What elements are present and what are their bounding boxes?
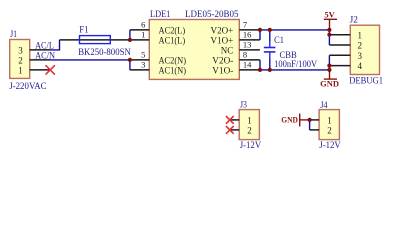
svg-text:J-12V: J-12V xyxy=(240,141,262,151)
IC pin 6 xyxy=(130,29,149,31)
junction dot C1 top xyxy=(268,28,272,32)
svg-text:AC1(N): AC1(N) xyxy=(159,66,187,76)
svg-text:AC2(L): AC2(L) xyxy=(159,26,186,36)
junction dot pin14 GND node xyxy=(258,68,262,72)
J3 pin 1 stub xyxy=(230,119,239,121)
svg-text:V2O-: V2O- xyxy=(212,56,233,66)
junction dot C1 bottom xyxy=(268,68,272,72)
svg-text:8: 8 xyxy=(243,50,247,60)
wire branch down to pin 3 row xyxy=(129,60,131,70)
IC LDE1 box xyxy=(149,10,239,79)
IC pin 3 xyxy=(130,69,149,71)
svg-text:3: 3 xyxy=(358,51,363,61)
connector J1 xyxy=(9,30,46,92)
svg-text:LDE05-20B05: LDE05-20B05 xyxy=(185,10,239,20)
junction dot GND stem xyxy=(327,68,331,72)
wire J2 pin3 to GND rail xyxy=(328,55,330,70)
no-connect X on J1 pin 1 xyxy=(46,65,55,74)
svg-text:13: 13 xyxy=(243,40,252,50)
J4 pin 2 stub xyxy=(310,129,320,131)
wire joining pins 7-16 xyxy=(259,30,261,40)
svg-text:LDE1: LDE1 xyxy=(150,10,171,20)
IC pin 13 (NC) xyxy=(239,49,260,51)
IC pin 14 xyxy=(239,69,260,71)
junction dot 5V stem xyxy=(327,28,331,32)
svg-text:4: 4 xyxy=(358,61,363,71)
svg-text:2: 2 xyxy=(18,56,23,66)
svg-text:NC: NC xyxy=(221,46,234,56)
svg-text:V1O+: V1O+ xyxy=(211,36,234,46)
junction dot J4 pin1 xyxy=(308,118,312,122)
J2 pin 3 stub xyxy=(329,54,350,56)
junction dot pin7 5V node xyxy=(258,28,262,32)
svg-text:C1: C1 xyxy=(274,36,284,46)
svg-text:J1: J1 xyxy=(10,30,17,40)
connector J4 xyxy=(319,101,341,151)
svg-text:5: 5 xyxy=(141,50,145,60)
svg-text:1: 1 xyxy=(141,30,145,40)
svg-text:1: 1 xyxy=(327,116,332,126)
svg-text:AC1(L): AC1(L) xyxy=(159,36,186,46)
fuse F1 xyxy=(60,26,131,59)
svg-text:3: 3 xyxy=(18,46,23,56)
IC pin 5 xyxy=(130,59,149,61)
wire branch up to pin 6 row xyxy=(129,30,131,40)
svg-text:5V: 5V xyxy=(324,9,335,19)
svg-text:7: 7 xyxy=(243,20,247,30)
svg-text:6: 6 xyxy=(141,20,145,30)
svg-text:J-12V: J-12V xyxy=(319,141,341,151)
svg-text:1: 1 xyxy=(18,66,23,76)
svg-text:F1: F1 xyxy=(79,26,89,36)
power port GND at J4 xyxy=(281,114,309,127)
svg-text:AC/N: AC/N xyxy=(35,50,55,60)
J2 pin 2 stub xyxy=(329,44,350,46)
J4 pin 1 stub xyxy=(310,119,320,121)
junction dot AC/N node xyxy=(128,58,132,62)
svg-text:GND: GND xyxy=(320,79,339,89)
J2 pin 1 stub xyxy=(329,34,350,36)
wire joining pins 8-14 xyxy=(259,60,261,70)
svg-text:14: 14 xyxy=(243,60,252,70)
svg-text:1: 1 xyxy=(358,30,363,40)
svg-text:AC/L: AC/L xyxy=(35,40,54,50)
J3 pin 2 stub xyxy=(230,129,239,131)
connector J2 xyxy=(349,15,383,85)
IC pin 7 xyxy=(239,29,260,31)
svg-text:100nF/100V: 100nF/100V xyxy=(274,60,317,70)
power port GND xyxy=(320,70,339,89)
connector J3 xyxy=(239,101,261,152)
svg-text:2: 2 xyxy=(247,126,252,136)
svg-text:V1O-: V1O- xyxy=(212,66,233,76)
junction dot fuse/AC-L node xyxy=(128,38,132,42)
wire J4 pins 1-2 xyxy=(309,120,311,130)
svg-text:J2: J2 xyxy=(350,15,359,25)
GND rail wire xyxy=(260,69,329,71)
J1 pin 1 stub xyxy=(30,69,50,71)
svg-text:J-220VAC: J-220VAC xyxy=(9,82,46,92)
no-connect X J3 pin1 xyxy=(226,116,234,124)
svg-text:3: 3 xyxy=(141,60,145,70)
svg-text:DEBUG1: DEBUG1 xyxy=(349,76,383,86)
J1 pin 2 stub xyxy=(30,59,50,61)
junction dot J2 pin1 xyxy=(327,33,331,37)
5V rail wire xyxy=(260,29,329,31)
power port 5V xyxy=(324,9,337,30)
svg-text:V2O+: V2O+ xyxy=(211,26,234,36)
IC pin 16 xyxy=(239,39,260,41)
svg-text:BK250-800SN: BK250-800SN xyxy=(78,48,131,58)
IC pin 8 xyxy=(239,59,260,61)
J2 pin 4 stub xyxy=(329,65,350,67)
J1 pin 3 stub xyxy=(30,49,50,51)
svg-text:1: 1 xyxy=(247,116,252,126)
svg-text:AC2(N): AC2(N) xyxy=(159,56,187,66)
wire AC/N from J1 pin2 to IC junction xyxy=(50,59,130,61)
wire down J2 pin1 to pin2 xyxy=(328,30,330,45)
wire AC/L from J1 pin3 up to fuse row xyxy=(50,40,60,50)
svg-text:2: 2 xyxy=(358,41,363,51)
svg-text:GND: GND xyxy=(281,115,298,125)
capacitor C1 xyxy=(264,30,317,70)
svg-text:2: 2 xyxy=(327,126,332,136)
svg-text:16: 16 xyxy=(243,30,252,40)
junction dot J2 pin4 xyxy=(327,64,331,68)
no-connect X J3 pin2 xyxy=(226,126,234,134)
